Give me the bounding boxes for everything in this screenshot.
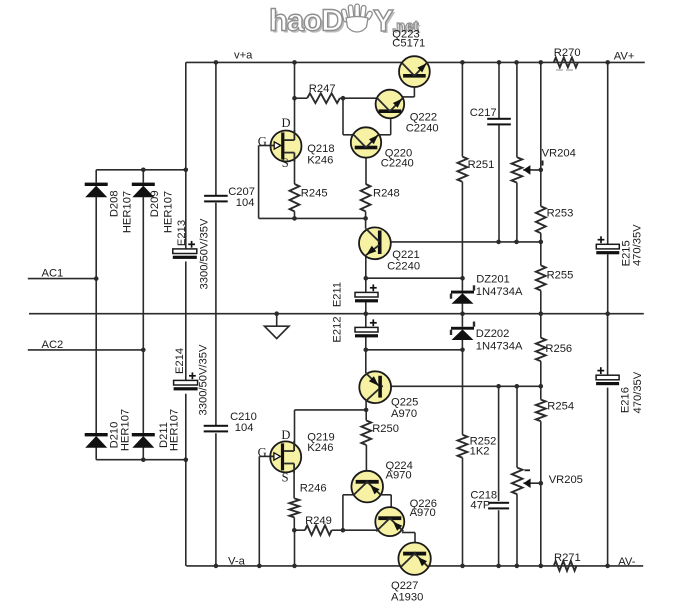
svg-text:Q227: Q227 [391,580,418,592]
svg-text:R251: R251 [468,159,495,171]
svg-text:R249: R249 [305,515,332,527]
svg-text:VR205: VR205 [549,474,583,486]
svg-text:R255: R255 [547,269,574,281]
svg-text:HER107: HER107 [162,191,174,233]
svg-text:S: S [282,470,289,484]
svg-text:1N4734A: 1N4734A [476,341,523,353]
svg-text:47P: 47P [470,499,490,511]
svg-text:Q221: Q221 [392,249,419,261]
svg-text:D208: D208 [108,190,120,217]
svg-text:470/35V: 470/35V [632,371,644,413]
svg-text:C2240: C2240 [387,260,420,272]
svg-text:R246: R246 [300,482,327,494]
svg-text:D: D [281,428,290,442]
svg-text:104: 104 [236,197,255,209]
svg-text:A970: A970 [410,507,436,519]
svg-text:470/35V: 470/35V [631,224,643,266]
svg-text:AC1: AC1 [42,268,64,280]
svg-text:A1930: A1930 [391,592,423,601]
svg-text:R248: R248 [373,187,400,199]
svg-text:R256: R256 [545,343,572,355]
svg-text:E211: E211 [331,282,343,307]
svg-text:G: G [258,135,267,149]
svg-text:A970: A970 [391,408,417,420]
svg-text:G: G [258,445,267,459]
svg-text:R254: R254 [547,400,574,412]
svg-text:K246: K246 [307,154,333,166]
svg-text:D: D [282,116,291,130]
svg-text:1K2: 1K2 [470,446,490,458]
svg-text:AC2: AC2 [42,339,64,351]
svg-text:HER107: HER107 [120,409,132,451]
svg-text:E213: E213 [176,220,188,246]
svg-text:Y: Y [373,3,394,38]
svg-text:K246: K246 [307,442,333,454]
svg-text:C2240: C2240 [381,158,414,170]
svg-text:C217: C217 [470,107,497,119]
svg-text:VR204: VR204 [542,147,576,159]
svg-text:D209: D209 [149,190,161,217]
svg-text:R245: R245 [301,187,328,199]
svg-text:A970: A970 [386,470,412,482]
svg-text:E216: E216 [619,387,631,413]
svg-text:AV-: AV- [618,556,635,568]
svg-text:E212: E212 [331,316,343,342]
svg-text:haoD: haoD [269,3,343,38]
svg-text:HER107: HER107 [169,409,181,451]
svg-text:3300/50V/35V: 3300/50V/35V [199,218,211,289]
svg-text:R250: R250 [372,423,399,435]
svg-text:S: S [282,156,289,170]
svg-text:C2240: C2240 [406,123,439,135]
svg-text:HER107: HER107 [122,191,134,233]
svg-text:Q218: Q218 [307,143,334,155]
svg-text:3300/50V/35V: 3300/50V/35V [198,344,210,415]
svg-text:R253: R253 [547,207,574,219]
svg-text:E214: E214 [174,348,186,374]
svg-text:DZ202: DZ202 [476,328,510,340]
svg-text:R247: R247 [309,83,336,95]
svg-text:R271: R271 [554,552,581,564]
svg-text:C5171: C5171 [392,37,425,49]
svg-text:Q225: Q225 [391,396,418,408]
svg-text:V-a: V-a [228,555,246,567]
svg-text:104: 104 [235,422,254,434]
svg-text:v+a: v+a [234,50,253,62]
svg-text:R270: R270 [554,47,581,59]
svg-text:DZ201: DZ201 [476,274,510,286]
svg-text:AV+: AV+ [614,50,635,62]
svg-text:1N4734A: 1N4734A [476,286,523,298]
